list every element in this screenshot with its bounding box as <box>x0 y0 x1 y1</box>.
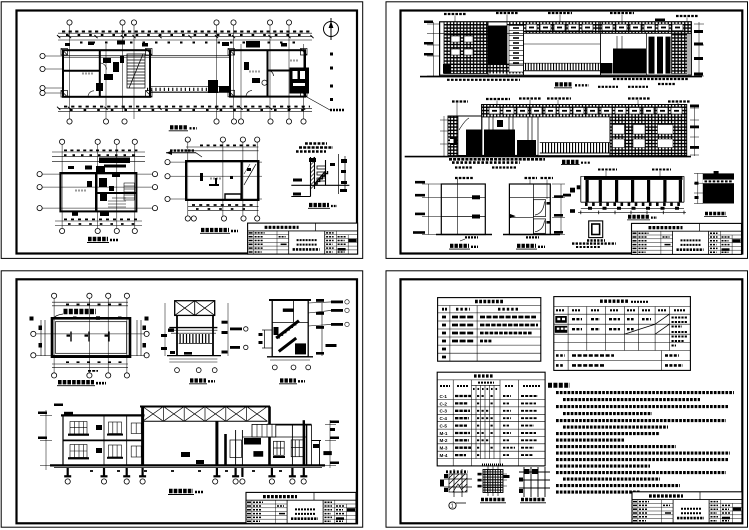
svg-text:C-3: C-3 <box>440 409 448 414</box>
svg-text:M-4: M-4 <box>440 453 448 458</box>
svg-text:C-2: C-2 <box>440 401 448 406</box>
svg-text:M-1: M-1 <box>440 431 448 436</box>
svg-text:M-3: M-3 <box>440 446 448 451</box>
svg-text:C-4: C-4 <box>440 416 448 421</box>
svg-text:C-5: C-5 <box>440 424 448 429</box>
svg-text:1: 1 <box>451 504 454 510</box>
svg-text:C-1: C-1 <box>440 394 448 399</box>
svg-text:M-2: M-2 <box>440 438 448 443</box>
